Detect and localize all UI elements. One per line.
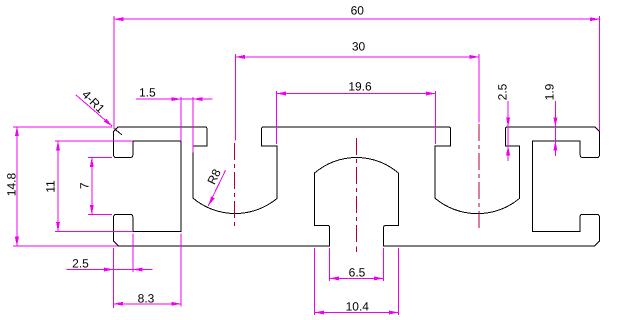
dim 19.6 line [276,93,435,95]
svg-text:8.3: 8.3 [138,291,155,305]
dim 2.5 bottom line [66,269,152,271]
arrow 60 right [590,17,600,21]
arrow 8.3 left [114,302,124,306]
svg-text:7: 7 [77,182,91,189]
leader R8 [208,170,225,206]
svg-text:2.5: 2.5 [72,257,89,271]
dim 6.5 line [330,277,384,279]
arrow 8.3 right [172,302,182,306]
dim 10.4 ext left [314,248,316,315]
dim 1.5 line [136,98,212,100]
svg-text:1.5: 1.5 [139,86,156,100]
arrow leader 4-R1 [104,119,113,127]
arrow 7 bottom [90,205,94,215]
arrow 2.5r bottom (outside pointing up) [506,146,510,156]
dim 60 ext right [598,16,600,131]
dim 7 ext top [88,157,112,159]
arrow 2.5b left (outside) [104,268,114,272]
dim 8.3 ext right [180,234,182,307]
centerline middle slot [356,138,358,244]
arrow 19.6 left [276,92,286,96]
arrow 1.5 right (outside) [193,97,203,101]
dim 1.9 line [554,101,556,156]
arrow 2.5r top (outside pointing down) [506,117,510,127]
arrow 10.4 right [389,311,399,315]
dim 14.8 line [16,127,18,247]
centerline slot2 [478,124,480,230]
dim 19.6 ext right [435,91,437,144]
arrow 1.9 top (outside pointing down) [553,117,557,127]
arrow 30 right [469,55,479,59]
arrow 10.4 left [315,311,325,315]
arrow 7 top [90,158,94,168]
dim 60 ext left [113,16,115,129]
dim 6.5 ext right [383,248,385,281]
arrow 1.5 left (outside) [172,97,182,101]
arrow 6.5 left [330,276,340,280]
dim 14.8 ext top [13,126,112,128]
svg-text:2.5: 2.5 [496,83,510,100]
corner R1 tick top-left [114,128,122,134]
dim 11 line [57,141,59,231]
arrow 2.5b right (outside) [133,268,143,272]
svg-text:R8: R8 [205,166,224,186]
svg-text:14.8: 14.8 [5,172,19,196]
dim 30 ext left [234,54,236,141]
dim 1.5 ext right [192,97,194,153]
dim 11 ext bottom [55,230,133,232]
leader 4-R1 [76,95,112,126]
dim 2.5 right line [507,101,509,161]
dim 6.5 ext left [329,248,331,281]
dim 8.3 line [114,303,182,305]
profile outline (aluminum extrusion cross-section) [114,127,600,246]
dim 8.3 ext left (shared with 2.5) [113,248,115,308]
arrow 11 bottom [56,222,60,232]
arrow 19.6 right [426,92,436,96]
svg-text:10.4: 10.4 [346,300,370,314]
svg-text:1.9: 1.9 [543,83,557,100]
dim 1.5 ext left [180,97,182,141]
dim 30 line [235,56,479,58]
dim 60 line [114,18,600,20]
svg-text:6.5: 6.5 [349,265,366,279]
dim 10.4 ext right [397,248,399,315]
dim 7 ext bottom [88,213,112,215]
svg-text:60: 60 [351,4,365,18]
arrow leader R8 [208,197,215,206]
arrow 1.9 bottom (outside pointing up) [553,141,557,151]
dim 2.5 bottom ext right [132,234,134,273]
arrow 6.5 right [374,276,384,280]
svg-text:11: 11 [44,180,58,193]
svg-text:30: 30 [352,40,366,54]
arrow 60 left [114,17,124,21]
dim 14.8 ext bottom [13,245,118,247]
dim 10.4 line [315,312,399,314]
dim 19.6 ext left [275,91,277,144]
dim 30 ext right [478,54,480,123]
arrow 14.8 bottom [15,237,19,247]
centerline slot1 [233,143,235,229]
arrow 14.8 top [15,127,19,137]
dim 7 line [91,158,93,215]
arrow 30 left [235,55,245,59]
svg-text:19.6: 19.6 [348,80,372,94]
arrow 11 top [56,141,60,151]
dim 11 ext top [55,140,133,142]
